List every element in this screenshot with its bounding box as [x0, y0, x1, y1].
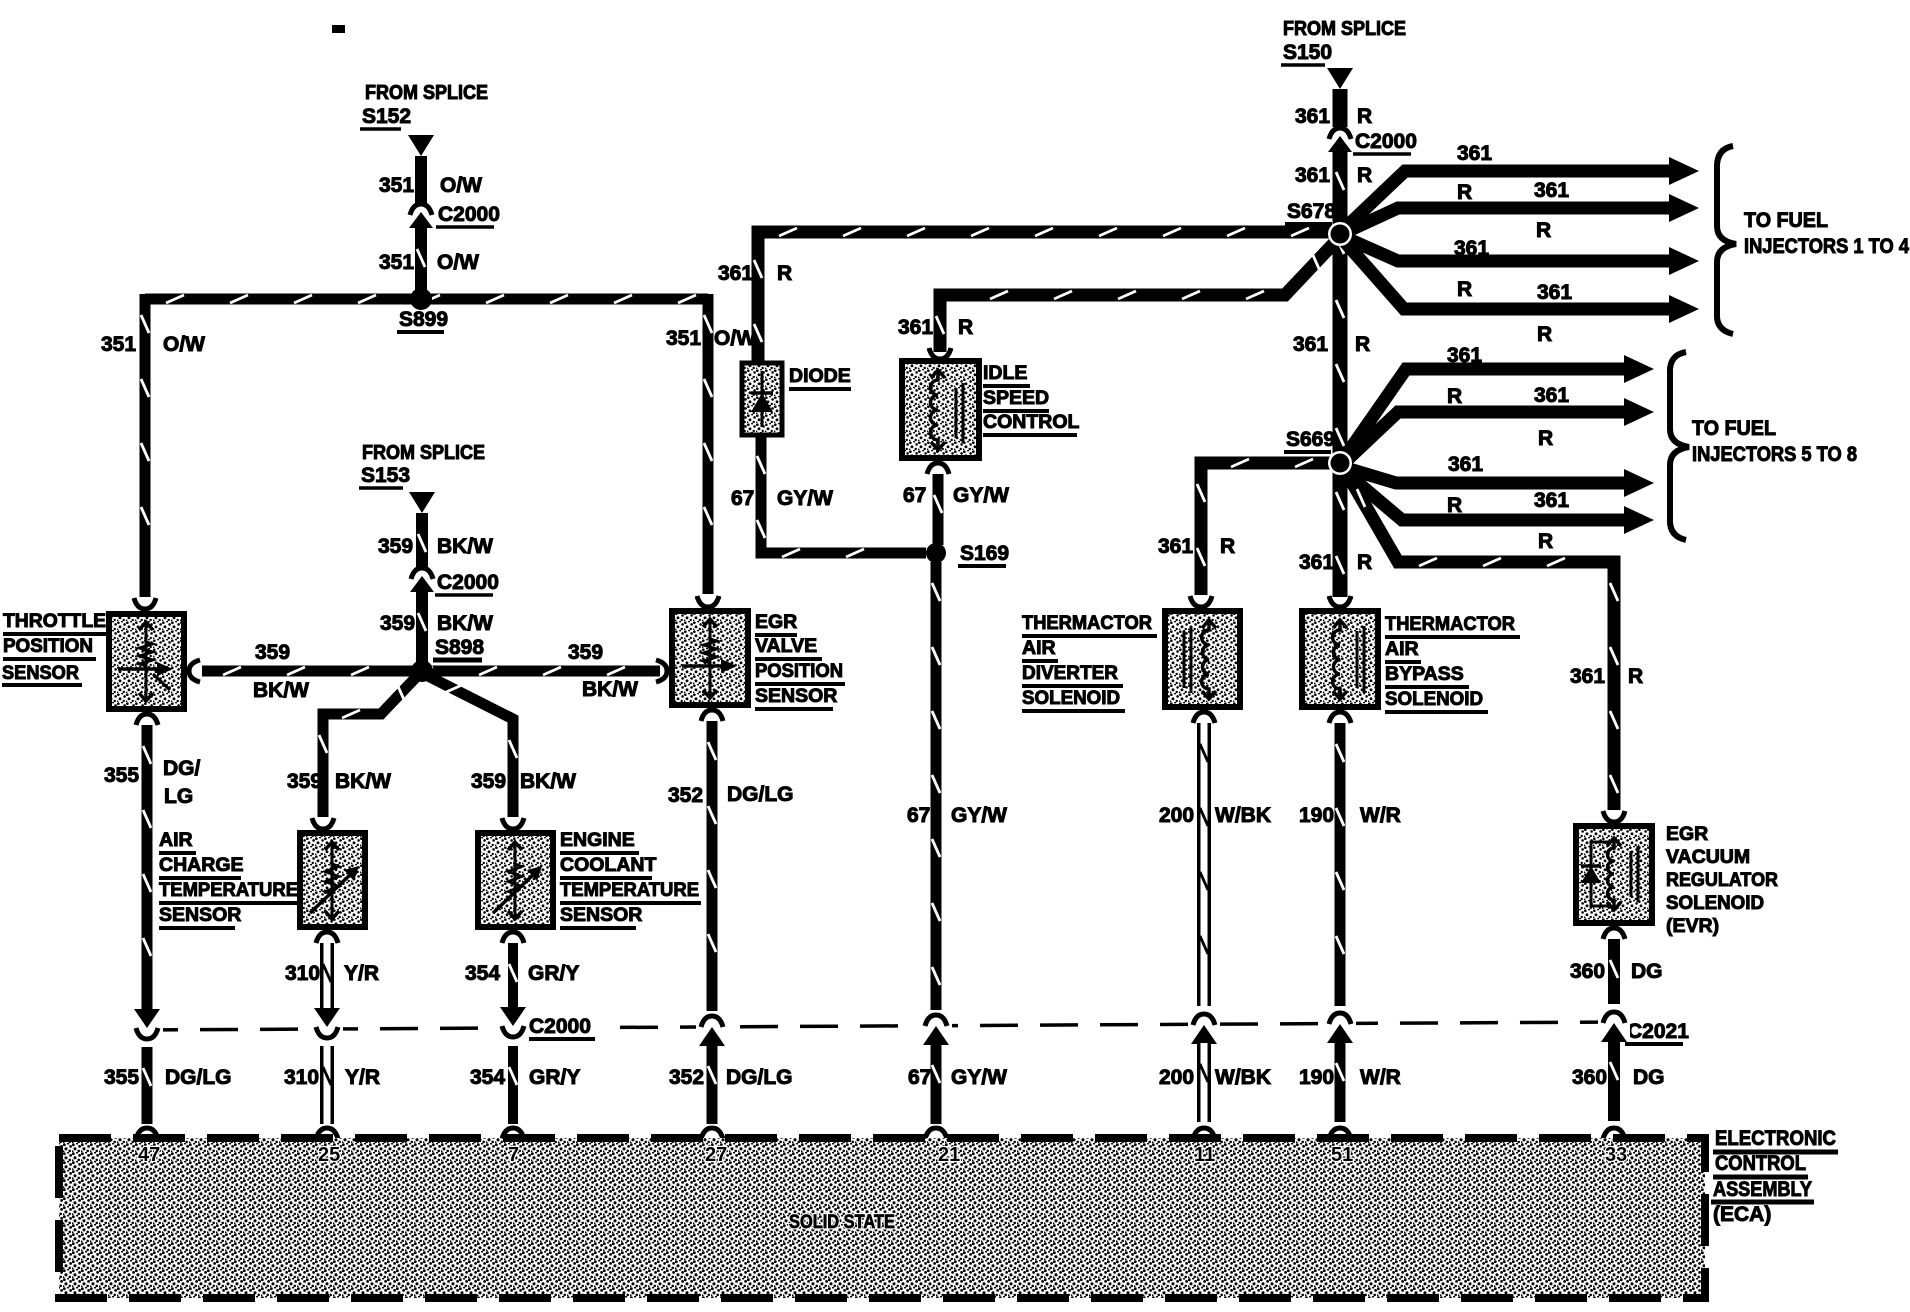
svg-text:(ECA): (ECA): [1713, 1203, 1771, 1226]
wire 351 O/W horizontal bus (S899): [145, 295, 708, 303]
svg-text:INJECTORS 1 TO 4: INJECTORS 1 TO 4: [1744, 235, 1909, 258]
svg-text:25: 25: [318, 1144, 340, 1166]
svg-text:51: 51: [1331, 1144, 1353, 1166]
connector at EGR VPS bottom: [701, 710, 723, 721]
value 351 (lower): [379, 251, 414, 274]
value 359 (ACT branch): [287, 770, 322, 793]
value O/W (lower): [437, 251, 479, 274]
connector C2000 (wire 359): [410, 568, 434, 592]
value 361 (diode top): [718, 262, 753, 285]
connector name C2000 (wire 351): [436, 203, 500, 227]
connector C2000 pin (wire 67): [920, 1010, 952, 1045]
value W/BK (upper): [1215, 804, 1271, 827]
wire 351 O/W lower (C2000 to S899): [417, 228, 425, 294]
label AIR: [159, 829, 196, 853]
svg-text:67: 67: [907, 804, 930, 827]
svg-text:LG: LG: [164, 785, 193, 808]
svg-text:C2000: C2000: [1355, 130, 1417, 153]
svg-text:47: 47: [138, 1144, 160, 1166]
svg-text:ENGINE: ENGINE: [560, 829, 635, 851]
label THERMACTOR (diverter): [1022, 612, 1157, 636]
label AIR (bypass): [1385, 638, 1421, 662]
junction S898: [411, 660, 433, 682]
value GR/Y (upper): [528, 962, 579, 985]
component box: throttle position sensor: [109, 614, 184, 709]
wire 190 W/R (bypass to C2000 line): [1336, 723, 1344, 1006]
svg-text:AIR: AIR: [159, 829, 193, 851]
svg-text:SENSOR: SENSOR: [560, 904, 642, 926]
connector at ISC top: [929, 348, 951, 359]
value 361 (below S669): [1299, 551, 1334, 574]
value 359 (bus left): [255, 641, 290, 664]
connector C2000 (wire 351): [409, 204, 433, 228]
value GY/W (lower): [951, 1066, 1007, 1089]
label SENSOR (ACT): [159, 904, 241, 928]
svg-text:S150: S150: [1283, 41, 1332, 64]
wire 361 R (top bus from diode to S678): [754, 228, 1334, 363]
label SOLENOID (diverter): [1022, 687, 1125, 711]
svg-text:THROTTLE: THROTTLE: [3, 610, 106, 632]
wire 67 GY/W (S169 to C2000 line): [932, 562, 940, 1012]
value 355 (lower): [104, 1066, 139, 1089]
svg-text:R: R: [1355, 333, 1370, 356]
svg-text:BK/W: BK/W: [520, 770, 576, 793]
svg-text:W/R: W/R: [1360, 804, 1401, 827]
label SENSOR (VPS): [755, 685, 837, 709]
wire 200 W/BK (C2021 to ECA pin 11): [1200, 1043, 1208, 1122]
connector at ACT bottom: [316, 932, 338, 943]
label INJECTORS 1 TO 4: [1744, 235, 1909, 258]
value R (injector 6): [1538, 427, 1553, 450]
svg-text:BYPASS: BYPASS: [1385, 663, 1464, 685]
svg-text:359: 359: [568, 641, 603, 664]
label (EVR): [1666, 915, 1719, 937]
svg-text:TO FUEL: TO FUEL: [1692, 417, 1776, 440]
svg-text:BK/W: BK/W: [253, 679, 309, 702]
label TO FUEL (5-8): [1692, 417, 1776, 440]
value W/R (upper): [1360, 804, 1401, 827]
connector at TPS bottom: [136, 714, 158, 725]
connector C2021 pin (wire 190): [1324, 1008, 1356, 1043]
connector name C2000 (dashed line): [527, 1015, 595, 1039]
svg-text:27: 27: [705, 1144, 727, 1166]
pin 51 (ECA): [1331, 1144, 1353, 1166]
component box: engine coolant temperature sensor: [478, 833, 553, 927]
svg-text:(EVR): (EVR): [1666, 915, 1719, 937]
value 67 (diode lower): [731, 487, 754, 510]
svg-text:361: 361: [898, 316, 933, 339]
label CHARGE: [159, 854, 244, 878]
value DG (upper): [1631, 960, 1663, 983]
svg-text:TEMPERATURE: TEMPERATURE: [159, 879, 298, 901]
value R (injector 3): [1457, 278, 1472, 301]
svg-text:VACUUM: VACUUM: [1666, 846, 1750, 868]
label THROTTLE: [3, 610, 107, 634]
svg-text:351: 351: [101, 333, 136, 356]
value 360 (upper): [1570, 960, 1605, 983]
pin 47 (ECA): [138, 1144, 160, 1166]
pin 25 (ECA): [318, 1144, 340, 1166]
component box: electronic control assembly (ECA): [59, 1138, 1705, 1298]
svg-text:R: R: [1357, 105, 1372, 128]
splice name S678: [1285, 200, 1336, 224]
value R (below S669): [1357, 551, 1372, 574]
value 361 (EVR): [1570, 665, 1605, 688]
svg-text:BK/W: BK/W: [437, 612, 493, 635]
wire arrow to fuel injector 2: [1346, 194, 1699, 232]
svg-text:361: 361: [1299, 551, 1334, 574]
label AIR (diverter): [1022, 637, 1058, 661]
value 190 (lower): [1299, 1066, 1334, 1089]
svg-text:THERMACTOR: THERMACTOR: [1385, 613, 1515, 635]
value GY/W (diode lower): [777, 487, 833, 510]
svg-text:359: 359: [255, 641, 290, 664]
label EGR (EVR): [1666, 823, 1708, 845]
svg-text:ASSEMBLY: ASSEMBLY: [1713, 1178, 1812, 1201]
value 361 (injector 5): [1447, 344, 1482, 367]
component box: thermactor air diverter solenoid: [1165, 611, 1240, 707]
value W/BK (lower): [1215, 1066, 1271, 1089]
svg-text:W/R: W/R: [1360, 1066, 1401, 1089]
svg-text:SOLENOID: SOLENOID: [1385, 688, 1483, 710]
label CONTROL: [983, 411, 1079, 435]
value BK/W (ECT branch): [520, 770, 576, 793]
svg-text:BK/W: BK/W: [437, 535, 493, 558]
svg-text:C2000: C2000: [437, 571, 499, 594]
wire 361 R (S669 to EVR): [1346, 472, 1618, 810]
value 361 (injector 6): [1534, 384, 1569, 407]
label SENSOR (ECT): [560, 904, 642, 928]
connector at ECA (wire 354): [502, 1128, 524, 1139]
svg-text:S152: S152: [362, 105, 411, 128]
connector name C2021: [1625, 1020, 1689, 1044]
svg-text:SOLENOID: SOLENOID: [1666, 892, 1764, 914]
connector at ECA (wire 355): [136, 1128, 158, 1139]
svg-text:67: 67: [731, 487, 754, 510]
label IDLE: [983, 362, 1030, 386]
svg-text:R: R: [1357, 164, 1372, 187]
label CONTROL: [1713, 1152, 1808, 1177]
value 200 (upper): [1159, 804, 1194, 827]
svg-text:SENSOR: SENSOR: [2, 662, 79, 684]
svg-text:352: 352: [669, 1066, 704, 1089]
value 361 (injector 7): [1448, 453, 1483, 476]
svg-text:361: 361: [718, 262, 753, 285]
value 359 (bus right): [568, 641, 603, 664]
svg-text:351: 351: [666, 327, 701, 350]
label VALVE: [755, 635, 822, 659]
value BK/W (ACT branch): [335, 770, 391, 793]
value 361 (injector 8): [1534, 489, 1569, 512]
value DG/LG (lower): [726, 1066, 793, 1089]
connector at ECA (wire 67): [925, 1128, 947, 1139]
wire arrow to fuel injector 7: [1346, 468, 1654, 497]
value 361 (below C2000): [1295, 164, 1330, 187]
connector C2000 pin (wire 352): [696, 1011, 728, 1046]
svg-text:21: 21: [938, 1144, 960, 1166]
svg-text:354: 354: [465, 962, 500, 985]
value DG (lower): [1633, 1066, 1665, 1089]
svg-text:11: 11: [1194, 1144, 1215, 1166]
svg-text:THERMACTOR: THERMACTOR: [1022, 612, 1152, 634]
svg-text:R: R: [958, 316, 973, 339]
wire 359 BK/W branch to ECT: [426, 675, 517, 817]
wire 354 GR/Y (C2000 to ECA pin 7): [509, 1046, 517, 1124]
svg-text:BK/W: BK/W: [335, 770, 391, 793]
svg-text:C2000: C2000: [529, 1015, 591, 1038]
label SOLID STATE: [789, 1212, 895, 1233]
connector C2000 pin (wire 354): [497, 1007, 529, 1042]
connector at TPS top: [134, 598, 156, 609]
value 361 (injector 3): [1454, 237, 1489, 260]
value R (ISC top): [958, 316, 973, 339]
svg-text:CONTROL: CONTROL: [1715, 1152, 1806, 1175]
svg-text:BK/W: BK/W: [582, 678, 638, 701]
svg-text:DIODE: DIODE: [789, 365, 851, 387]
wire 359 BK/W branch to ACT: [319, 671, 422, 817]
wire 310 Y/R (C2000 to ECA pin 25): [323, 1046, 331, 1124]
value DG/ (upper): [163, 757, 201, 780]
svg-text:190: 190: [1299, 1066, 1334, 1089]
label TEMPERATURE (ECT): [560, 879, 701, 903]
connector C2000 (wire 361): [1328, 128, 1352, 152]
value GR/Y (lower): [529, 1066, 580, 1089]
connector C2021 pin (wire 200): [1188, 1009, 1220, 1044]
svg-text:TEMPERATURE: TEMPERATURE: [560, 879, 699, 901]
svg-text:361: 361: [1534, 489, 1569, 512]
svg-text:O/W: O/W: [440, 174, 482, 197]
value BK/W (bus right): [582, 678, 638, 701]
svg-text:SPEED: SPEED: [983, 387, 1049, 409]
value 361 (S678-S669): [1293, 333, 1328, 356]
label TEMPERATURE (ACT): [159, 879, 299, 903]
svg-text:R: R: [1457, 181, 1472, 204]
value 361 (S150 upper): [1295, 105, 1330, 128]
value O/W (right branch): [714, 327, 756, 350]
wire 67 GY/W (C2000 to ECA pin 21): [932, 1044, 940, 1124]
splice name S899: [397, 308, 448, 332]
svg-text:FROM SPLICE: FROM SPLICE: [362, 442, 485, 464]
svg-text:33: 33: [1605, 1144, 1627, 1166]
label SOLENOID (EVR): [1666, 892, 1764, 914]
connector at bypass bottom: [1329, 712, 1351, 723]
value 359 (S153 upper): [378, 535, 413, 558]
svg-text:200: 200: [1159, 804, 1194, 827]
junction S669: [1328, 451, 1352, 475]
wire 355 DG/LG (C2000 to ECA pin 47): [143, 1047, 151, 1124]
connector at EGR VPS wire left: [656, 660, 667, 682]
svg-text:SENSOR: SENSOR: [755, 685, 837, 707]
value R (S678-S669): [1355, 333, 1370, 356]
connector at ECT bottom: [502, 932, 524, 943]
svg-text:S899: S899: [399, 308, 448, 331]
svg-text:GY/W: GY/W: [951, 804, 1007, 827]
svg-text:352: 352: [668, 784, 703, 807]
connector at ECA (wire 200): [1193, 1128, 1215, 1139]
svg-text:DG/LG: DG/LG: [726, 1066, 793, 1089]
value 361 (ISC top): [898, 316, 933, 339]
svg-text:R: R: [1538, 427, 1553, 450]
label ASSEMBLY: [1711, 1178, 1814, 1202]
component box: thermactor air bypass solenoid: [1302, 611, 1378, 707]
junction S169: [926, 543, 946, 563]
svg-text:C2021: C2021: [1627, 1020, 1689, 1043]
wire 361 R (S669 to diverter solenoid): [1197, 459, 1334, 595]
value BK/W (bus left): [253, 679, 309, 702]
scan speck (top left): [332, 25, 345, 33]
svg-text:O/W: O/W: [163, 333, 205, 356]
svg-text:GY/W: GY/W: [953, 484, 1009, 507]
svg-text:DG/LG: DG/LG: [165, 1066, 232, 1089]
component box: air charge temperature sensor: [300, 833, 365, 927]
connector C2000 pin (wire 355): [131, 1009, 163, 1044]
label ELECTRONIC: [1713, 1127, 1838, 1152]
value Y/R (lower): [345, 1066, 380, 1089]
svg-text:R: R: [1538, 530, 1553, 553]
svg-text:DG/LG: DG/LG: [727, 783, 794, 806]
value R (injector 5): [1447, 385, 1462, 408]
value R (S150 upper): [1357, 105, 1372, 128]
value BK/W (S153 lower): [437, 612, 493, 635]
splice entry arrow S152: [408, 135, 434, 156]
value GY/W (ISC lower): [953, 484, 1009, 507]
connector C2021 pin (wire 360): [1598, 1007, 1630, 1042]
wire 354 GR/Y (ECT to C2000 line): [509, 943, 517, 1008]
wire arrow to fuel injector 3: [1346, 238, 1699, 275]
svg-text:S169: S169: [960, 542, 1009, 565]
wire arrow to fuel injector 6: [1346, 398, 1654, 461]
splice entry arrow S150: [1327, 68, 1353, 89]
connector at ECA (wire 190): [1329, 1128, 1351, 1139]
value R (injector 7): [1447, 494, 1462, 517]
wire 352 DG/LG (C2000 to ECA pin 27): [708, 1045, 716, 1124]
svg-text:355: 355: [104, 1066, 139, 1089]
svg-text:EGR: EGR: [1666, 823, 1708, 845]
value 360 (lower): [1572, 1066, 1607, 1089]
svg-text:361: 361: [1534, 384, 1569, 407]
svg-text:FROM SPLICE: FROM SPLICE: [1283, 18, 1406, 40]
component box: diode: [742, 363, 782, 435]
value 354 (lower): [470, 1066, 505, 1089]
svg-text:CONTROL: CONTROL: [983, 411, 1079, 433]
svg-text:S669: S669: [1286, 428, 1335, 451]
label EGR (VPS): [755, 611, 797, 635]
value R (injector 4): [1537, 323, 1552, 346]
value 355 (upper): [104, 764, 139, 787]
wire 361 R (S150 to C2000): [1333, 89, 1348, 127]
wire 67 GY/W (ISC to S169): [934, 474, 942, 545]
connector at ECA (wire 310): [316, 1128, 338, 1139]
wire 361 R (ISC feed from S678): [936, 240, 1337, 352]
value LG (upper): [164, 785, 193, 808]
svg-text:361: 361: [1295, 105, 1330, 128]
svg-text:C2000: C2000: [438, 203, 500, 226]
svg-text:POSITION: POSITION: [755, 660, 843, 682]
component box: EGR vacuum regulator solenoid: [1576, 826, 1652, 923]
value DG/LG (upper): [727, 783, 794, 806]
value 352 (lower): [669, 1066, 704, 1089]
svg-text:FROM SPLICE: FROM SPLICE: [365, 82, 488, 104]
label TO FUEL (1-4): [1744, 209, 1828, 232]
value BK/W (S153 upper): [437, 535, 493, 558]
value DG/LG (lower): [165, 1066, 232, 1089]
svg-text:INJECTORS 5 TO 8: INJECTORS 5 TO 8: [1692, 443, 1857, 466]
svg-text:361: 361: [1534, 179, 1569, 202]
svg-text:359: 359: [378, 535, 413, 558]
svg-text:CHARGE: CHARGE: [159, 854, 244, 876]
svg-text:IDLE: IDLE: [983, 362, 1027, 384]
svg-text:361: 361: [1570, 665, 1605, 688]
splice entry arrow S153: [409, 492, 435, 513]
svg-text:GY/W: GY/W: [951, 1066, 1007, 1089]
connector at EGR VPS top: [697, 596, 719, 607]
svg-text:R: R: [777, 262, 792, 285]
svg-text:360: 360: [1572, 1066, 1607, 1089]
wire 351 O/W left branch (to TPS): [141, 294, 149, 597]
svg-text:359: 359: [471, 770, 506, 793]
connector at EVR top: [1603, 811, 1625, 822]
svg-text:S153: S153: [361, 464, 410, 487]
wire 359 BK/W upper (S153 to C2000): [418, 513, 426, 567]
wire 190 W/R (C2021 to ECA pin 51): [1336, 1042, 1344, 1122]
svg-text:310: 310: [284, 1066, 319, 1089]
svg-text:67: 67: [903, 484, 926, 507]
svg-text:Y/R: Y/R: [344, 962, 379, 985]
svg-text:DIVERTER: DIVERTER: [1022, 662, 1118, 684]
svg-text:W/BK: W/BK: [1215, 804, 1271, 827]
wire 359 BK/W lower (C2000 to S898): [418, 592, 426, 662]
label INJECTORS 5 TO 8: [1692, 443, 1857, 466]
wire 351 O/W upper (S152 to C2000): [415, 156, 427, 203]
wire 351 O/W right branch (to EGR VPS): [704, 294, 712, 594]
value 351 (left branch): [101, 333, 136, 356]
splice name S150: [1281, 41, 1332, 65]
wire arrow to fuel injector 4: [1344, 241, 1699, 323]
wire 361 R (C2000 to S678 to S669 to bypass solenoid): [1336, 151, 1344, 597]
label FROM SPLICE (S150): [1283, 18, 1406, 40]
svg-text:310: 310: [285, 962, 320, 985]
brace injectors 5 to 8: [1670, 352, 1689, 540]
svg-text:351: 351: [379, 174, 414, 197]
svg-text:361: 361: [1448, 453, 1483, 476]
splice name S898: [433, 636, 484, 660]
wire 359 BK/W horizontal bus (S898): [202, 667, 660, 675]
svg-text:SOLID STATE: SOLID STATE: [789, 1212, 895, 1233]
value 67 (lower run): [907, 804, 930, 827]
label THERMACTOR (bypass): [1385, 613, 1520, 637]
value 351 (right branch): [666, 327, 701, 350]
svg-text:354: 354: [470, 1066, 505, 1089]
value 67 (ISC lower): [903, 484, 926, 507]
pin 21 (ECA): [938, 1144, 960, 1166]
value 310 (upper): [285, 962, 320, 985]
svg-text:DG: DG: [1633, 1066, 1665, 1089]
label POSITION (VPS): [755, 660, 845, 684]
connector at diverter top: [1190, 596, 1212, 607]
wire 355 DG/LG (TPS to C2000 line): [143, 725, 151, 1012]
connector name C2000 (wire 361): [1353, 130, 1417, 154]
svg-text:DG: DG: [1631, 960, 1663, 983]
value 200 (lower): [1159, 1066, 1194, 1089]
value 67 (lower): [908, 1066, 931, 1089]
svg-text:GR/Y: GR/Y: [529, 1066, 580, 1089]
connector at ACT top: [312, 818, 334, 829]
splice name S152: [360, 105, 411, 129]
svg-text:R: R: [1220, 535, 1235, 558]
svg-text:355: 355: [104, 764, 139, 787]
svg-text:190: 190: [1299, 804, 1334, 827]
value Y/R (upper): [344, 962, 379, 985]
